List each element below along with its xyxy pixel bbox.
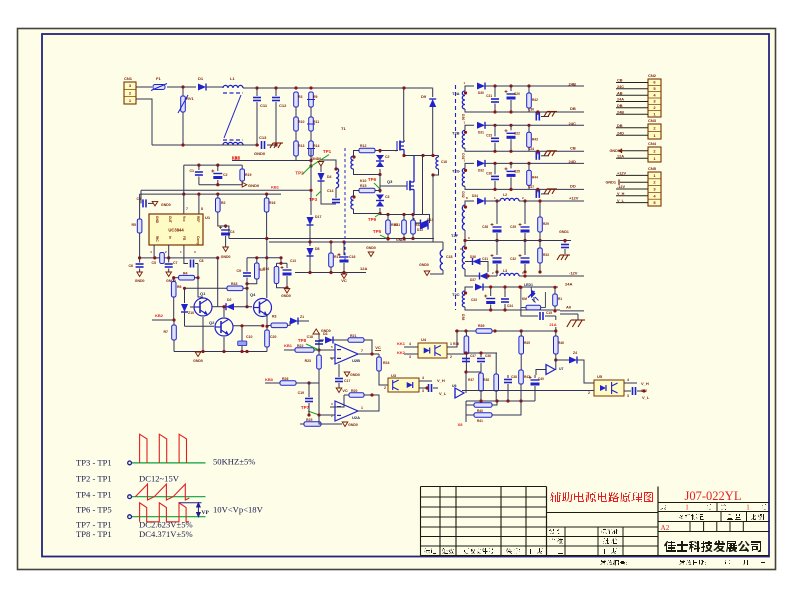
resistor R43: [528, 125, 530, 132]
svg-text:C26: C26: [486, 171, 492, 175]
resistor KM: [526, 305, 541, 310]
svg-text:C1: C1: [190, 169, 195, 173]
svg-text:R19: R19: [245, 173, 251, 177]
svg-text:C8: C8: [199, 259, 204, 263]
waveform 1 pulses: [140, 434, 187, 463]
svg-text:R24: R24: [383, 361, 389, 365]
svg-text:V_H: V_H: [617, 192, 625, 196]
svg-text:CN4: CN4: [648, 141, 657, 146]
svg-text:24A: 24A: [565, 282, 572, 287]
diode D32: [477, 160, 485, 167]
resistor R19: [241, 165, 243, 169]
svg-text:TP7 - TP1: TP7 - TP1: [76, 520, 112, 530]
varistor RV1: [182, 87, 184, 96]
wire L1 to C11 C12 node: [243, 87, 296, 89]
resistor R46: [555, 331, 557, 336]
svg-text:R10: R10: [298, 120, 304, 124]
resistor R37: [479, 373, 484, 391]
svg-text:U7: U7: [559, 367, 564, 371]
capacitor C5: [160, 253, 165, 264]
ground GND0 vref: [242, 182, 247, 187]
svg-text:C30: C30: [528, 108, 534, 112]
resistor R12: [359, 148, 375, 153]
svg-text:Z4: Z4: [573, 351, 577, 355]
resistor R7: [172, 325, 177, 340]
diode D3: [319, 339, 324, 341]
CN5 pin wire V_H: [616, 195, 648, 197]
capacitor C13e: [281, 266, 292, 276]
capacitor C20v: [265, 330, 270, 347]
CN2 pin wire 24A: [616, 101, 648, 103]
ground GND0 C6: [137, 272, 143, 277]
resistor R30: [386, 220, 391, 234]
transistor Q2: [215, 318, 233, 336]
waveform 3 Vp arrow: [197, 503, 201, 517]
wire CN1 pin1 to fuse: [136, 86, 152, 88]
wire R13 bottom: [295, 156, 297, 161]
svg-text:1: 1: [361, 406, 363, 410]
choke L1 core dashes: [223, 93, 243, 140]
svg-text:R45: R45: [524, 341, 530, 345]
resistor R42: [528, 86, 530, 93]
svg-text:2: 2: [588, 391, 590, 395]
earth ground T2G: [541, 193, 549, 195]
resistor R47: [519, 370, 524, 384]
wire Q4 emitter node: [266, 314, 268, 330]
svg-text:C18: C18: [307, 335, 313, 339]
zener D4: [320, 165, 322, 172]
wire Q1 emitter down: [202, 317, 204, 352]
ground GND0 C16: [368, 252, 374, 257]
svg-text:C20: C20: [270, 335, 276, 339]
svg-text:GND0: GND0: [366, 246, 376, 250]
wire U2A out: [358, 395, 379, 411]
svg-text:K10: K10: [360, 179, 366, 183]
resistor R43: [227, 286, 243, 291]
transistor Q1: [194, 298, 212, 316]
vref gnd rail: [199, 184, 242, 186]
wire top bus to D9: [432, 88, 434, 98]
earth ground T2B: [541, 155, 549, 157]
svg-text:R37: R37: [468, 378, 474, 382]
ground GND0 driver: [195, 352, 201, 357]
CN2 pin wire CB: [616, 82, 648, 84]
svg-text:C2: C2: [385, 155, 390, 159]
svg-text:V_L: V_L: [439, 391, 447, 396]
mid rail A: [229, 238, 434, 240]
svg-text:-12V: -12V: [569, 271, 578, 276]
choke L1 coupling slash: [224, 95, 241, 138]
wire D9 down: [432, 107, 434, 156]
CN2 pin wire 24B: [616, 113, 648, 115]
diode D30: [477, 83, 485, 90]
svg-text:U5: U5: [597, 374, 603, 379]
resistor R20a: [255, 263, 260, 279]
label 处数: [442, 548, 454, 554]
svg-text:RtC: RtC: [155, 236, 159, 242]
shunt ref U7: [546, 365, 555, 375]
capacitor C21: [494, 86, 496, 97]
svg-text:C18: C18: [441, 160, 447, 164]
snubber bias coil C18a: [438, 156, 440, 158]
svg-text:R11: R11: [313, 120, 319, 124]
svg-text:GND0: GND0: [221, 255, 231, 259]
svg-text:Q1: Q1: [200, 291, 206, 296]
svg-text:D36: D36: [470, 255, 476, 259]
T2 winding T2G: [462, 168, 465, 186]
svg-text:R46: R46: [558, 341, 564, 345]
svg-text:Z1: Z1: [300, 315, 304, 319]
svg-text:GND0: GND0: [348, 423, 358, 427]
wire R12 to node: [375, 150, 398, 152]
T1 sec1 top wire: [354, 151, 360, 157]
T2F winding lower: [462, 246, 465, 269]
svg-text:DD: DD: [570, 183, 576, 188]
svg-text:KB2: KB2: [155, 313, 164, 318]
ground GND0 aux: [284, 289, 290, 294]
wire left column: [139, 194, 141, 219]
svg-text:VC: VC: [375, 345, 381, 350]
zener Z10: [181, 304, 188, 312]
svg-text:C2: C2: [223, 173, 228, 177]
svg-text:D13: D13: [427, 218, 433, 222]
svg-text:D32: D32: [461, 191, 465, 197]
svg-text:D30: D30: [478, 91, 484, 95]
test point TP6: [368, 177, 380, 189]
net KB0 wire: [265, 382, 280, 384]
title text 辅助电源电路原理图: [550, 492, 653, 502]
svg-text:1: 1: [450, 342, 452, 346]
transistor Q4: [254, 299, 272, 317]
svg-text:DB: DB: [570, 106, 576, 111]
CN5 pin wire +12V: [616, 174, 648, 176]
svg-text:C24: C24: [528, 147, 534, 151]
svg-text:24C: 24C: [569, 121, 576, 126]
svg-text:C13: C13: [290, 259, 296, 263]
wire W top: [455, 330, 476, 332]
wire W bottom row1: [466, 400, 535, 402]
svg-text:C5: C5: [152, 261, 157, 265]
label 共页第页: [660, 504, 666, 510]
svg-text:TP5: TP5: [373, 229, 382, 234]
test point TP1: [311, 149, 331, 166]
svg-text:TP9: TP9: [368, 217, 377, 222]
svg-text:D17: D17: [315, 215, 321, 219]
ground GND0 C7: [166, 272, 172, 277]
capacitor C23: [494, 125, 496, 136]
svg-text:C18: C18: [446, 255, 452, 259]
svg-text:TP8 - TP1: TP8 - TP1: [76, 529, 112, 539]
svg-text:R39: R39: [478, 324, 484, 328]
capacitor C11: [256, 88, 258, 96]
svg-text:R12: R12: [360, 144, 366, 148]
test point TP3: [309, 191, 321, 202]
svg-text:8: 8: [201, 207, 203, 211]
svg-text:T1: T1: [341, 126, 346, 131]
waveform 1 baseline: [132, 462, 206, 464]
wire D1 to L1: [206, 86, 223, 88]
svg-text:R29: R29: [543, 222, 549, 226]
svg-text:R2: R2: [221, 201, 226, 205]
bias coil C18b: [440, 250, 443, 270]
svg-text:12A: 12A: [360, 266, 367, 271]
resistor R31: [402, 220, 407, 234]
diode D31: [477, 122, 485, 129]
svg-text:GND1: GND1: [605, 181, 616, 185]
svg-text:GND0: GND0: [193, 359, 203, 363]
diode D2: [212, 306, 226, 308]
wire R2 drop: [217, 258, 219, 307]
diode D37: [465, 269, 480, 276]
ground GND0 C4: [223, 247, 229, 252]
resistor R2: [217, 194, 219, 198]
svg-text:R42: R42: [532, 98, 538, 102]
CN2 pin wire 24C: [616, 88, 648, 90]
resistor R24: [378, 354, 380, 357]
capacitor filter C30: [537, 112, 539, 115]
capacitor C16 electrolytic: [338, 253, 349, 263]
svg-text:C3: C3: [137, 197, 142, 201]
net KB2 wire: [152, 319, 174, 321]
svg-text:CN1: CN1: [124, 76, 133, 81]
wire fuse to D1: [167, 86, 196, 88]
svg-text:C21: C21: [486, 94, 492, 98]
zener Z1: [287, 321, 290, 325]
capacitor C32: [524, 241, 526, 256]
svg-text:C3: C3: [385, 195, 390, 199]
wire W mid rows: [466, 352, 497, 354]
sense row wire: [380, 214, 423, 215]
net A0: [560, 310, 584, 312]
waveform 3 baseline: [132, 516, 206, 518]
wire U2B out: [358, 353, 379, 355]
svg-text:R22: R22: [297, 344, 303, 348]
svg-text:R23: R23: [305, 359, 311, 363]
earth ground T2A: [541, 116, 549, 118]
svg-text:2: 2: [384, 386, 386, 390]
svg-text:C27: C27: [528, 185, 534, 189]
label 日期bottom: [530, 548, 543, 554]
capacitor C35: [521, 308, 538, 316]
svg-text:U2A: U2A: [352, 415, 360, 420]
svg-text:C29: C29: [510, 225, 516, 229]
resistor R4: [179, 275, 195, 280]
TVS C2 snubber: [379, 151, 381, 154]
wire U5 input rail: [462, 390, 594, 392]
svg-text:AB: AB: [617, 91, 623, 95]
capacitor C7: [168, 245, 170, 263]
svg-text:R38: R38: [483, 378, 489, 382]
wire T1 primary top: [321, 160, 336, 168]
diode D34: [465, 201, 474, 205]
capacitor C18c: [313, 329, 320, 334]
svg-text:C15: C15: [546, 311, 552, 315]
TVS C3 snubber: [379, 191, 381, 194]
svg-text:TP8: TP8: [298, 338, 307, 343]
resistor R3: [294, 92, 299, 107]
T1 sec2 winding: [351, 196, 354, 209]
resistor R39: [476, 329, 492, 334]
label 工艺: [549, 548, 563, 554]
wire pin4 down: [153, 245, 155, 258]
capacitor C41: [419, 387, 427, 389]
svg-text:KB1: KB1: [271, 185, 280, 190]
wire R43 to Q4 base: [246, 288, 248, 306]
wire W bottom row2: [466, 405, 474, 415]
diode D8: [307, 248, 314, 256]
wire Q4 collector: [266, 239, 268, 298]
wire U4 right pins: [447, 331, 457, 347]
wire Q1 base stub: [190, 306, 194, 308]
svg-text:R43: R43: [532, 137, 538, 141]
svg-text:4: 4: [422, 376, 424, 380]
svg-text:TP7: TP7: [301, 405, 310, 410]
svg-text:R3: R3: [272, 315, 277, 319]
VC 12A wire: [295, 272, 366, 274]
wire U8 right V_H: [624, 382, 637, 384]
svg-text:TP3 - TP1: TP3 - TP1: [76, 458, 112, 468]
pin rail: [140, 193, 281, 195]
capacitor filter C27: [537, 189, 539, 192]
svg-text:D9: D9: [421, 94, 427, 99]
svg-text:TP6 - TP5: TP6 - TP5: [76, 505, 112, 515]
label 图样标记: [679, 514, 704, 520]
label 年月日: [724, 560, 730, 565]
svg-text:21A: 21A: [549, 322, 556, 327]
svg-text:D37: D37: [470, 278, 476, 282]
svg-text:GND0: GND0: [609, 149, 620, 153]
svg-text:24D: 24D: [617, 131, 624, 135]
resistor R22: [295, 348, 314, 353]
lower out wire CB: [530, 150, 584, 152]
svg-text:A2: A2: [661, 524, 670, 532]
test point TP9: [368, 214, 380, 223]
svg-text:TP2: TP2: [295, 171, 304, 176]
svg-text:24C: 24C: [617, 85, 624, 89]
earth ground GND1: [557, 255, 570, 260]
capacitor C4 electrolytic: [225, 226, 227, 228]
svg-text:R41: R41: [477, 419, 483, 423]
T1 secondary winding 1: [351, 156, 354, 169]
svg-text:7: 7: [361, 349, 363, 353]
svg-text:C12: C12: [279, 103, 287, 108]
T2 winding T2A: [462, 91, 465, 109]
svg-text:V_H: V_H: [437, 378, 445, 383]
CN3 pin wires: [616, 127, 648, 129]
wire 21A feed: [521, 327, 556, 331]
svg-text:D1: D1: [198, 76, 204, 81]
diode D1: [198, 84, 206, 91]
resistor R25: [304, 422, 321, 427]
connector CN2: [648, 79, 661, 117]
svg-text:C19: C19: [298, 391, 304, 395]
capacitor C1: [198, 165, 200, 170]
label 日期center: [604, 548, 617, 554]
title block grid: [421, 487, 770, 556]
svg-text:X8: X8: [458, 422, 464, 427]
svg-text:R31: R31: [394, 223, 400, 227]
svg-text:R47: R47: [524, 375, 530, 379]
svg-text:R21: R21: [350, 334, 356, 338]
svg-text:DC12~15V: DC12~15V: [139, 474, 180, 484]
label 发放编号: [600, 560, 627, 566]
inductor L3: [500, 273, 519, 276]
svg-text:R20: R20: [351, 389, 357, 393]
capacitor C10: [241, 326, 243, 341]
capacitor C13: [262, 141, 265, 149]
wire U7 cathode: [554, 360, 557, 370]
test point TP5: [373, 229, 388, 239]
capacitor C12: [275, 88, 277, 96]
svg-text:C10: C10: [246, 335, 252, 339]
resistor R21: [348, 338, 364, 343]
T2 winding T2C: [462, 291, 465, 307]
wire R14 to node TP1: [310, 148, 312, 166]
svg-text:KB0: KB0: [232, 155, 241, 160]
svg-text:C40: C40: [538, 377, 544, 381]
diode D13: [420, 223, 428, 230]
waveform 3 origin circle: [128, 515, 132, 519]
test point TP2: [295, 166, 311, 176]
capacitor C20: [510, 86, 512, 91]
CN5 pin wire GND1: [620, 181, 648, 183]
svg-text:U2B: U2B: [352, 358, 360, 363]
diode D38: [475, 284, 483, 291]
wire R13b node: [375, 190, 380, 192]
svg-text:KB0: KB0: [265, 377, 274, 382]
svg-text:L1: L1: [230, 76, 235, 81]
waveform 3 top ref line: [179, 502, 201, 504]
svg-text:R5: R5: [132, 223, 137, 227]
svg-text:LED1: LED1: [524, 283, 533, 287]
svg-text:C11: C11: [260, 103, 268, 108]
svg-text:C25: C25: [514, 169, 520, 173]
svg-text:R36: R36: [453, 342, 459, 346]
CN5 pin wire V_L: [616, 202, 648, 204]
gnd rail driver: [174, 351, 267, 353]
svg-text:1: 1: [685, 504, 689, 512]
svg-text:TP1: TP1: [323, 149, 332, 154]
mosfet Q3b: [407, 156, 414, 215]
CN5 pin wire -12V: [616, 188, 648, 190]
label 更改文件号: [463, 548, 494, 554]
company 佳士科技发展公司: [664, 540, 761, 552]
resistor R17: [329, 253, 334, 267]
earth ground after C13: [267, 144, 276, 146]
svg-text:R9: R9: [313, 95, 318, 99]
connector CN3: [648, 124, 661, 139]
resistor R41: [474, 413, 492, 418]
wire drain column: [403, 88, 405, 141]
svg-text:VC: VC: [342, 388, 348, 393]
capacitor C19: [305, 399, 313, 402]
svg-text:D3: D3: [323, 332, 328, 336]
svg-text:C6: C6: [129, 264, 134, 268]
capacitor C28: [496, 201, 498, 224]
svg-text:GND0: GND0: [419, 263, 429, 267]
choke L1 top winding: [223, 85, 243, 88]
svg-text:T2F: T2F: [451, 233, 459, 238]
T1 primary left winding: [336, 168, 339, 188]
svg-text:4: 4: [409, 342, 411, 346]
svg-text:Q3: Q3: [387, 179, 393, 184]
capacitor C2 electrolytic: [217, 165, 219, 171]
resistor R38: [494, 374, 499, 391]
svg-text:GND0: GND0: [350, 373, 360, 377]
svg-text:24B: 24B: [617, 110, 624, 114]
svg-text:V_H: V_H: [641, 381, 649, 386]
svg-text:+12V: +12V: [617, 172, 626, 176]
